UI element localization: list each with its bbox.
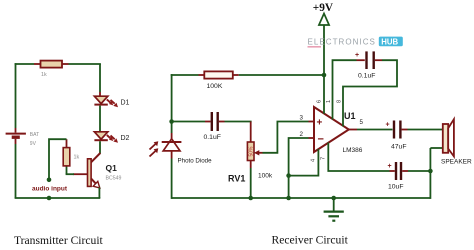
label Receiver Circuit xyxy=(272,234,349,247)
svg-text:BAT: BAT xyxy=(30,132,39,138)
resistor 1k horizontal xyxy=(41,61,63,78)
battery BAT 9V xyxy=(6,132,40,147)
svg-text:LM386: LM386 xyxy=(343,147,363,154)
svg-text:47uF: 47uF xyxy=(391,144,407,151)
resistor 100K xyxy=(204,71,233,90)
svg-text:+9V: +9V xyxy=(313,2,334,14)
op-amp U1 LM386 xyxy=(314,107,363,154)
svg-text:HUB: HUB xyxy=(381,37,398,46)
svg-text:RV1: RV1 xyxy=(228,174,245,184)
logo ELECTRONICS HUB xyxy=(308,37,403,47)
svg-text:ELECTRONICS: ELECTRONICS xyxy=(308,38,376,47)
node photodiode junction xyxy=(169,119,174,124)
wire speaker return vertical xyxy=(429,148,431,199)
svg-text:U1: U1 xyxy=(344,111,356,121)
svg-text:9V: 9V xyxy=(30,141,37,147)
svg-text:0.1uF: 0.1uF xyxy=(358,73,375,80)
wire pin 4 xyxy=(289,149,319,176)
svg-text:10uF: 10uF xyxy=(388,184,404,191)
wire pin 7 to 10uF xyxy=(328,143,395,172)
label Transmitter Circuit xyxy=(14,234,104,247)
wire pin 1 to bypass cap xyxy=(333,60,365,119)
svg-text:−: − xyxy=(318,134,324,146)
wire speaker bottom terminal xyxy=(430,147,443,149)
wire D2 to collector xyxy=(99,141,101,153)
svg-text:100K: 100K xyxy=(207,83,223,90)
pin 5 label xyxy=(360,119,364,126)
wire receiver left rail xyxy=(171,74,173,121)
svg-text:Photo Diode: Photo Diode xyxy=(178,157,213,164)
capacitor 0.1uF input xyxy=(204,112,221,141)
wire D1-D2 xyxy=(99,106,101,132)
label +9V xyxy=(313,2,334,14)
wire transmitter bottom rail xyxy=(15,197,101,199)
svg-text:100k: 100k xyxy=(258,173,273,180)
wire junction to photodiode xyxy=(171,122,173,140)
wire receiver top rail left xyxy=(171,74,205,76)
svg-text:Transmitter Circuit: Transmitter Circuit xyxy=(14,234,104,247)
wire left rail top xyxy=(15,63,17,132)
svg-text:1: 1 xyxy=(326,100,332,103)
svg-text:4: 4 xyxy=(311,159,317,162)
svg-text:+: + xyxy=(317,118,323,129)
pin 4 label xyxy=(311,159,317,162)
node audio input bottom terminal xyxy=(47,196,52,201)
svg-text:3: 3 xyxy=(300,115,304,122)
wire top left xyxy=(15,63,41,65)
wire pin 2 to ground rail xyxy=(289,138,314,199)
svg-text:D2: D2 xyxy=(121,135,130,142)
capacitor 10uF xyxy=(388,162,404,191)
svg-text:8: 8 xyxy=(337,100,343,103)
LED D2 xyxy=(94,132,129,143)
pin 7 label xyxy=(321,157,327,160)
svg-text:1k: 1k xyxy=(41,72,47,78)
photodiode xyxy=(150,139,213,165)
wire pin 6 to +9V xyxy=(323,75,325,114)
power arrow +9V xyxy=(319,14,329,76)
wire receiver bottom rail xyxy=(172,197,431,199)
svg-text:audio input: audio input xyxy=(32,185,68,192)
ground xyxy=(324,198,344,221)
svg-text:Receiver Circuit: Receiver Circuit xyxy=(272,234,349,247)
node audio input top terminal xyxy=(47,178,52,183)
svg-text:50%: 50% xyxy=(249,146,255,157)
wire top right xyxy=(62,64,101,96)
wire 47uF to speaker xyxy=(402,129,443,131)
wire left rail bottom xyxy=(15,139,17,198)
wire base xyxy=(66,166,88,174)
wire 10uF to junction xyxy=(402,170,430,172)
svg-text:0.1uF: 0.1uF xyxy=(204,134,221,141)
wire capacitor to RV1 xyxy=(219,121,252,123)
pin 6 label xyxy=(317,100,323,103)
wire photodiode to bottom rail xyxy=(171,151,173,199)
wire wiper to pin 3 xyxy=(263,122,315,153)
svg-text:1k: 1k xyxy=(74,155,80,161)
capacitor 0.1uF gain xyxy=(355,51,375,79)
svg-text:5: 5 xyxy=(360,119,364,126)
resistor 1k vertical xyxy=(63,139,79,166)
node speaker return junction xyxy=(428,169,433,174)
pin 8 label xyxy=(337,100,343,103)
wire audio input top xyxy=(49,139,67,180)
svg-text:+: + xyxy=(355,52,359,59)
potentiometer RV1 100k xyxy=(228,122,273,199)
pin 2 label xyxy=(300,131,304,138)
pin 1 label xyxy=(326,100,332,103)
node +9V junction xyxy=(322,73,327,78)
capacitor 47uF xyxy=(386,121,407,151)
wire pin 5 output xyxy=(349,129,393,131)
speaker SPEAKER xyxy=(441,119,472,165)
svg-text:6: 6 xyxy=(317,100,323,103)
node pin4/pin2 junction xyxy=(286,173,291,178)
transistor Q1 BC549 xyxy=(88,153,122,188)
svg-text:D1: D1 xyxy=(121,100,130,107)
svg-text:Q1: Q1 xyxy=(106,163,118,173)
svg-text:2: 2 xyxy=(300,131,304,138)
svg-text:+: + xyxy=(388,163,392,170)
node pin2 ground xyxy=(286,196,291,201)
pin 3 label xyxy=(300,115,304,122)
wire cap to pin 8 xyxy=(343,60,397,126)
node RV1 bottom xyxy=(248,196,253,201)
node ground junction xyxy=(331,196,336,201)
label audio input xyxy=(32,185,68,192)
svg-text:BC549: BC549 xyxy=(106,176,122,182)
svg-text:SPEAKER: SPEAKER xyxy=(441,159,472,166)
svg-text:7: 7 xyxy=(321,157,327,160)
svg-text:+: + xyxy=(386,122,390,129)
wire receiver top rail right xyxy=(233,74,324,76)
LED D1 xyxy=(94,96,129,107)
wire emitter down xyxy=(98,187,100,198)
wire junction to capacitor xyxy=(172,121,211,123)
